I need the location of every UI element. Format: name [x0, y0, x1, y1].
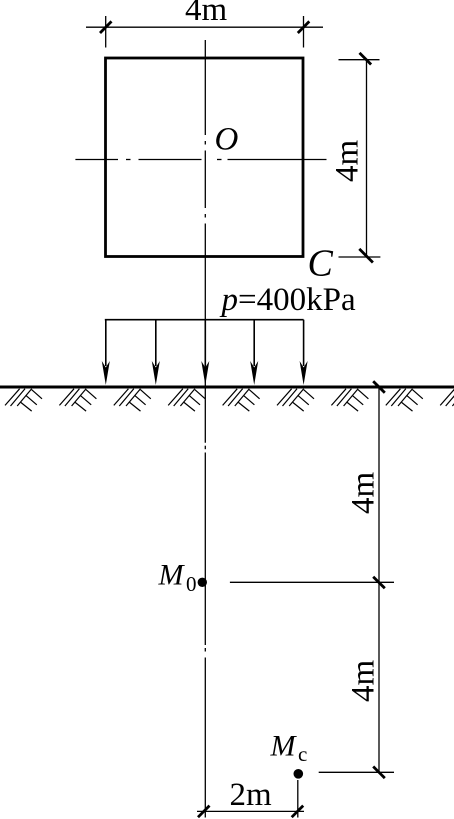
load arrow 4: [250, 320, 258, 385]
point M0 dot: [198, 578, 207, 587]
load arrow 5: [300, 320, 308, 385]
horizontal centerline through O: [75, 159, 326, 161]
tick top: [360, 53, 372, 65]
leader line from M0 to depth dim: [230, 581, 394, 583]
svg-text:4m: 4m: [185, 0, 228, 28]
svg-text:c: c: [298, 742, 307, 766]
svg-text:4m: 4m: [346, 660, 382, 703]
svg-text:M: M: [270, 730, 298, 763]
tick left of 2m: [198, 806, 210, 818]
tick at Mc level: [373, 767, 385, 779]
tick at ground: [373, 381, 385, 393]
ground hatching: [5, 389, 454, 411]
extension line below Mc: [297, 780, 299, 818]
svg-text:2m: 2m: [230, 777, 273, 813]
tick right of top dimension: [298, 21, 310, 33]
svg-text:p=400kPa: p=400kPa: [220, 282, 356, 318]
load arrow 2: [152, 320, 160, 385]
extension bottom: [339, 256, 381, 258]
svg-text:0: 0: [186, 572, 197, 596]
tick right of 2m: [292, 806, 304, 818]
2m dimension bottom: [197, 810, 304, 812]
extension top: [339, 59, 380, 61]
top dim extension line left: [105, 16, 107, 48]
svg-text:O: O: [215, 122, 239, 158]
load distribution line: [105, 319, 304, 321]
ground surface line: [0, 386, 454, 389]
svg-text:M: M: [158, 559, 186, 592]
load arrow 3: [201, 320, 209, 385]
svg-text:C: C: [308, 243, 334, 285]
point Mc dot: [294, 769, 304, 779]
leader line from Mc to depth dim: [319, 771, 394, 773]
load arrow 1: [102, 320, 110, 385]
top dim extension line right: [303, 16, 305, 48]
depth dimension line (right): [378, 387, 380, 772]
vertical centerline (axis): [204, 40, 206, 818]
tick bottom: [359, 249, 373, 263]
svg-text:4m: 4m: [330, 140, 366, 183]
right side dimension 4m (plan): [366, 60, 368, 257]
top dimension line 4m: [86, 26, 323, 28]
tick at M0 level: [373, 577, 385, 589]
footing square (plan view): [106, 58, 304, 257]
tick left of top dimension: [100, 21, 112, 33]
svg-text:4m: 4m: [346, 472, 382, 515]
